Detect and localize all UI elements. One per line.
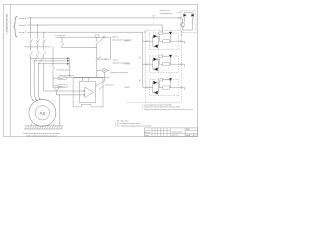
gate ticks vs3b [158, 94, 159, 96]
thyristor VS2a [153, 57, 157, 61]
contactor KM pole 3 [43, 51, 46, 56]
svg-text:3. При срабатывании теплового: 3. При срабатывании теплового реле схема… [142, 109, 193, 111]
svg-text:3, VD - защитные диоды силовой: 3, VD - защитные диоды силовой части схе… [115, 125, 152, 128]
gate resistor R32 [159, 78, 163, 81]
title block text [145, 128, 191, 137]
aux hold wire [61, 37, 97, 48]
aux contact KM wire [96, 37, 99, 58]
start button SB [96, 58, 98, 60]
gate ticks vs2b [158, 70, 159, 72]
thermal relay contact KK [52, 68, 55, 72]
svg-text:Тепловое реле: Тепловое реле [56, 69, 68, 71]
tap wire to amplifier input [44, 64, 84, 91]
feed bus wire [142, 32, 144, 87]
thyristor module 3 dashed box [150, 79, 179, 95]
control bus wire [63, 76, 109, 78]
svg-text:Лампочка (сигнальная): Лампочка (сигнальная) [110, 72, 129, 74]
connector arrow 3 [67, 63, 69, 65]
node L3 drop [43, 32, 44, 33]
top control dashed box [181, 10, 196, 32]
branch wire to VS2 [143, 63, 153, 65]
collector wire [69, 58, 71, 77]
terminal x bus top [144, 31, 146, 33]
terminal x VS1 in [146, 40, 148, 42]
amp inner wire 1 [82, 77, 84, 81]
wire drop 2 [34, 25, 37, 95]
node L1 drop [30, 17, 31, 18]
motor base band [24, 126, 63, 129]
node L2 drop [37, 24, 38, 25]
gate branch wire [159, 33, 170, 41]
amplifier inner box [80, 81, 96, 102]
out tail wire [184, 88, 186, 91]
svg-text:Фаза А: Фаза А [19, 17, 27, 20]
resistor R11 [163, 40, 170, 43]
branch wire to VS1 [143, 40, 153, 42]
svg-text:Фаза В: Фаза В [19, 24, 27, 27]
outer dashed bottom [127, 101, 182, 103]
motor earth wire [59, 95, 61, 126]
node T2 [34, 60, 35, 61]
wire drop 3 [38, 32, 44, 95]
breaker QF pole 2 [36, 39, 39, 44]
sensor label box 2 [58, 85, 67, 88]
title block right cells [185, 128, 198, 137]
svg-text:Лист: Лист [186, 135, 189, 137]
thermal relay branch wire [52, 47, 54, 88]
amp inner wire 2 [87, 77, 89, 81]
branch wire to VS3 [143, 87, 153, 89]
svg-text:к сборным шинам: к сборным шинам [5, 14, 8, 34]
out tail wire [184, 41, 186, 44]
border frame [4, 4, 198, 136]
svg-text:схем управления: схем управления [160, 13, 173, 15]
transistor VT1 [180, 23, 184, 27]
terminal x VS2 out [180, 63, 182, 65]
label leader wire [176, 11, 181, 13]
connector arrow 2 [67, 60, 69, 62]
thyristor VS1a [153, 34, 157, 38]
thyristor module 1 dashed box [150, 33, 179, 49]
wire drop 1 [29, 18, 31, 95]
wires in top box [185, 17, 193, 30]
module VS3 [153, 78, 185, 96]
terminal x under box [180, 34, 182, 36]
motor AD inner circle [35, 106, 49, 120]
svg-text:двигателем: двигателем [171, 135, 178, 137]
L2 gate feed wire [161, 25, 163, 33]
breaker QF pole 3 [43, 39, 46, 44]
regulator outer box [73, 78, 103, 107]
svg-text:к тиристорному регулятору напр: к тиристорному регулятору напряжения [26, 135, 57, 137]
svg-text:СИФУ3: СИФУ3 [124, 86, 129, 89]
gate ticks vs1b [158, 47, 159, 49]
node tap [43, 63, 44, 64]
toggle switch body [95, 35, 99, 38]
gate branch wire [159, 56, 170, 64]
node vs2 gate [170, 64, 171, 65]
node earth tap [59, 94, 60, 95]
resistor R21 [163, 63, 170, 66]
motor feed arrow 2 [34, 95, 36, 100]
vs2 fork wires [153, 59, 185, 69]
svg-text:Датчик: Датчик [59, 78, 64, 80]
terminal x VS1 out [180, 40, 182, 42]
brace [14, 16, 18, 37]
transistor out wire [183, 27, 193, 30]
wire L2 [27, 24, 162, 26]
terminal x button [105, 58, 107, 60]
op-amp U1 [85, 87, 94, 98]
module VS1 [153, 32, 185, 50]
svg-text:Блок питания: Блок питания [160, 10, 170, 12]
outer dashed control box [145, 30, 182, 102]
motor legs [31, 123, 54, 126]
wire T3 [38, 63, 67, 65]
terminal x VS3 out [180, 87, 182, 89]
breaker linkage wire [25, 46, 51, 48]
node T3 [38, 63, 39, 64]
out tail wire [184, 64, 186, 67]
gate thyristor VS2c [169, 55, 172, 58]
terminal on L1 [153, 15, 155, 18]
svg-text:Кнопка: Кнопка [113, 60, 118, 62]
motor base hatching [25, 126, 63, 129]
legend text block [115, 121, 152, 128]
gate branch wire [159, 80, 170, 88]
wire T1 [30, 57, 67, 59]
signal lamp HL [102, 68, 106, 72]
diode VD2 [191, 14, 194, 17]
breaker QF pole 1 [29, 39, 32, 44]
motor AD outer circle [29, 99, 56, 126]
thyristor VS3b [154, 91, 158, 95]
notes text block [142, 103, 193, 111]
terminal x on L1 right [178, 17, 180, 19]
svg-text:Усилитель: Усилитель [105, 85, 113, 87]
resistor R31 [163, 86, 170, 89]
sensor label box 1 [58, 77, 66, 79]
node T1 [30, 58, 31, 59]
terminal x VS2 in [146, 63, 148, 65]
lamp to amp wire [97, 73, 105, 86]
switch chain drop wire [110, 37, 112, 59]
connector arrow 1 [67, 57, 69, 59]
svg-text:от генератора: от генератора [55, 35, 65, 37]
title block columns [152, 128, 171, 137]
svg-text:Фаза С: Фаза С [19, 31, 27, 34]
gate resistor R22 [159, 55, 163, 58]
svg-text:Тумблер: Тумблер [112, 36, 118, 38]
wire L1 [27, 17, 181, 19]
gate resistor R12 [159, 32, 163, 35]
vs3 fork wires [153, 83, 185, 93]
diode VD1 [183, 14, 186, 17]
wire T2 [34, 60, 67, 62]
svg-text:АВФ21: АВФ21 [186, 128, 190, 131]
gate thyristor VS1c [169, 32, 172, 35]
contactor KM pole 1 [29, 51, 32, 56]
thyristor VS2b [154, 67, 158, 71]
inner frame line [9, 4, 11, 136]
node vs1 gate [170, 41, 171, 42]
button to lamp wire [97, 60, 103, 77]
terminal x bus mid [139, 57, 141, 59]
svg-text:Изм Лист: Изм Лист [145, 132, 151, 134]
svg-text:Схема управления: Схема управления [171, 132, 183, 134]
top box rail wire [185, 12, 193, 13]
title block [145, 128, 198, 137]
thyristor module 2 dashed box [150, 56, 179, 72]
title block rows [145, 131, 198, 134]
node vs3 gate [170, 87, 171, 88]
motor feed arrow 1 [30, 95, 33, 101]
thyristor VS1b [154, 44, 158, 48]
module VS2 [153, 55, 185, 73]
vs1 fork wires [153, 36, 185, 46]
sensor triangle [54, 88, 60, 91]
toggle switch contact [103, 36, 105, 38]
terminal x VS3 in [146, 87, 148, 89]
gate thyristor VS3c [169, 78, 172, 81]
thyristor VS3a [153, 81, 157, 85]
wire sensor to amp [57, 91, 85, 95]
wire L3 [27, 31, 143, 33]
svg-text:Разраб.: Разраб. [145, 135, 150, 137]
amp label leader [99, 86, 104, 90]
L1 into transistor wire [181, 18, 182, 23]
terminal x bus low [139, 80, 141, 82]
mode switch wire [56, 36, 111, 38]
sensor stub wires [53, 78, 58, 86]
svg-text:АД: АД [40, 110, 46, 115]
contactor KM pole 2 [36, 51, 39, 56]
motor feed arrow 3 [38, 95, 40, 100]
lamp stub wire [107, 70, 110, 72]
